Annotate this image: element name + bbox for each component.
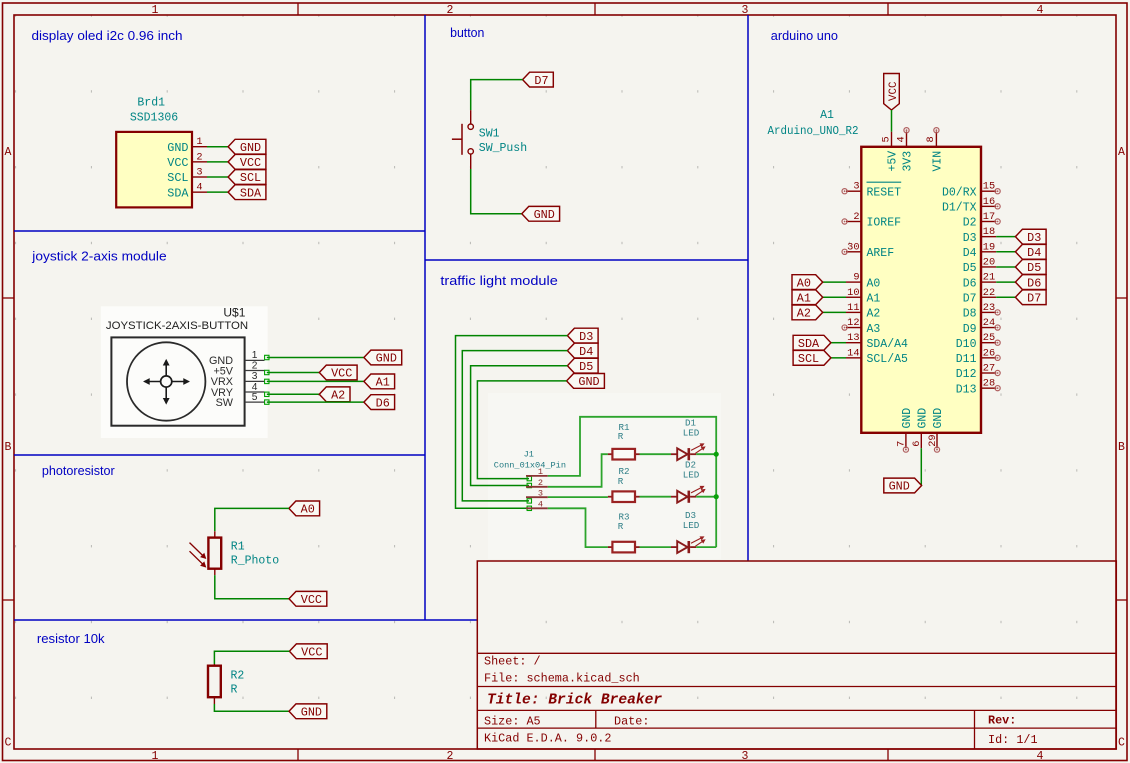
svg-text:25: 25	[983, 332, 995, 344]
svg-text:D3: D3	[579, 330, 593, 344]
resistor R2 top pin	[213, 664, 215, 666]
svg-text:VCC: VCC	[301, 646, 322, 660]
wire A1 to D5 label	[996, 266, 1015, 268]
global label VCC (photoresistor)	[289, 591, 327, 606]
svg-text:R: R	[231, 684, 238, 697]
svg-text:GND: GND	[376, 352, 397, 366]
led D1 (traffic image)	[671, 453, 677, 455]
global label A0 (photoresistor)	[289, 501, 320, 516]
global label SDA (arduino)	[793, 335, 831, 350]
svg-text:B: B	[1118, 441, 1125, 454]
pin 13 of A1 (SDA/A4)	[846, 342, 861, 344]
svg-text:Rev:: Rev:	[988, 714, 1016, 728]
wire D3 cathode	[696, 546, 716, 548]
svg-text:C: C	[1118, 737, 1125, 750]
svg-text:28: 28	[983, 378, 995, 390]
svg-text:D0/RX: D0/RX	[942, 186, 977, 199]
pin 7 of A1 (GND)	[905, 433, 907, 448]
svg-text:4: 4	[196, 182, 202, 194]
pin 14 of A1 (SCL/A5)	[846, 357, 861, 359]
wire A0 to A1	[823, 281, 846, 283]
svg-text:7: 7	[896, 441, 908, 447]
svg-text:IOREF: IOREF	[867, 217, 902, 230]
svg-text:D8: D8	[963, 308, 977, 321]
svg-text:2: 2	[196, 151, 202, 163]
wire traffic pin1 to LED cathodes	[548, 417, 716, 547]
joystick body rectangle	[111, 337, 244, 425]
pin 3 of Brd1 (SCL)	[192, 176, 207, 178]
svg-text:U$1: U$1	[223, 306, 245, 320]
svg-text:20: 20	[983, 256, 995, 268]
pin 1 of Brd1 (GND)	[192, 146, 207, 148]
wire traffic pin3 to R2	[548, 496, 608, 498]
svg-text:1: 1	[152, 4, 159, 17]
joystick section bottom line	[14, 454, 425, 456]
wire A1 GND to label	[920, 448, 922, 485]
svg-text:4: 4	[538, 500, 543, 510]
svg-text:VCC: VCC	[301, 593, 322, 607]
global label SCL (oled)	[228, 170, 266, 185]
photoresistor R1 bottom pin	[214, 569, 216, 575]
svg-text:4: 4	[1037, 750, 1044, 763]
junction dot D2 cathode	[714, 494, 719, 499]
svg-text:GND: GND	[889, 480, 910, 494]
svg-text:D7: D7	[534, 74, 548, 88]
resistor R2 (traffic image)	[608, 496, 613, 498]
svg-text:2: 2	[853, 211, 859, 223]
svg-text:21: 21	[983, 272, 995, 284]
svg-text:6: 6	[911, 441, 923, 447]
svg-text:joystick 2-axis module: joystick 2-axis module	[31, 248, 166, 263]
svg-text:A2: A2	[867, 308, 881, 321]
svg-text:D5: D5	[963, 262, 977, 275]
svg-text:GND: GND	[901, 408, 914, 429]
svg-text:R: R	[618, 521, 624, 532]
wire joystick A2	[267, 393, 320, 395]
wire Brd1 pin 1 to label	[207, 146, 228, 148]
wire GND to J1	[477, 381, 566, 479]
svg-text:A1: A1	[797, 291, 811, 305]
svg-text:D1/TX: D1/TX	[942, 202, 977, 215]
svg-text:A0: A0	[797, 276, 811, 290]
svg-text:D6: D6	[963, 277, 977, 290]
wire R1 to D1	[640, 453, 672, 455]
svg-text:14: 14	[847, 347, 859, 359]
svg-text:LED: LED	[683, 470, 700, 481]
wire D7 to SW1	[471, 80, 523, 111]
svg-text:Size: A5: Size: A5	[484, 715, 541, 729]
svg-text:SCL: SCL	[167, 171, 188, 185]
wire A1 to D3 label	[996, 236, 1015, 238]
svg-text:A2: A2	[797, 307, 811, 321]
svg-text:SDA: SDA	[240, 186, 262, 200]
display section bottom line	[14, 230, 425, 232]
global label GND (button)	[522, 206, 560, 221]
svg-text:12: 12	[847, 317, 859, 329]
svg-text:2: 2	[538, 478, 543, 488]
svg-text:GND: GND	[240, 141, 261, 155]
wire D3 to J1	[456, 336, 568, 509]
pin 5 of A1 (+5V)	[891, 132, 893, 147]
svg-text:D6: D6	[376, 396, 390, 410]
pin 22 of A1 (D7)	[981, 296, 996, 298]
svg-text:SCL: SCL	[240, 171, 261, 185]
resistor R3 (traffic image)	[608, 546, 613, 548]
pin 17 of A1 (D2)	[981, 221, 996, 223]
svg-text:9: 9	[853, 272, 859, 284]
svg-text:VCC: VCC	[167, 156, 188, 170]
svg-text:GND: GND	[301, 706, 322, 720]
switch SW1 bottom pin	[470, 154, 472, 169]
pin 10 of A1 (A1)	[846, 296, 861, 298]
global label GND (joystick)	[364, 350, 402, 365]
junction dot D1 cathode	[714, 452, 719, 457]
pin 11 of A1 (A2)	[846, 311, 861, 313]
power symbol VCC	[884, 74, 900, 111]
svg-text:+5V: +5V	[887, 151, 900, 172]
svg-text:23: 23	[983, 302, 995, 314]
global label VCC (joystick)	[319, 365, 357, 380]
svg-text:1: 1	[152, 750, 159, 763]
svg-text:A1: A1	[376, 376, 390, 390]
svg-text:SW: SW	[216, 397, 234, 409]
svg-text:GND: GND	[578, 375, 599, 389]
svg-text:A0: A0	[301, 503, 315, 517]
wire traffic pin4 to R3	[548, 508, 608, 547]
pin 3 of J1	[526, 496, 548, 498]
svg-text:30: 30	[847, 241, 859, 253]
svg-text:Arduino_UNO_R2: Arduino_UNO_R2	[768, 125, 859, 138]
svg-text:SSD1306: SSD1306	[130, 112, 178, 125]
pin 29 of A1 (GND)	[936, 433, 938, 448]
svg-text:3V3: 3V3	[902, 151, 915, 172]
pin 12 of A1 (A3)	[846, 327, 861, 329]
pin 9 of A1 (A0)	[846, 281, 861, 283]
svg-text:2: 2	[252, 360, 258, 371]
svg-text:VIN: VIN	[931, 151, 944, 172]
svg-text:B: B	[5, 441, 12, 454]
svg-text:3: 3	[742, 750, 749, 763]
wire A1 to D6 label	[996, 281, 1015, 283]
pin 6 of A1 (GND)	[920, 433, 922, 448]
pin 19 of A1 (D4)	[981, 251, 996, 253]
joystick cross arrows	[145, 361, 188, 403]
global label GND (oled)	[228, 139, 266, 154]
svg-text:15: 15	[983, 181, 995, 193]
led D2 (traffic image)	[671, 496, 677, 498]
global label SDA (oled)	[228, 185, 266, 200]
wire A1 to D4 label	[996, 251, 1015, 253]
photoresistor R1 top pin	[214, 531, 216, 537]
wire D4 to J1	[462, 351, 567, 501]
global label A2 (joystick)	[319, 387, 350, 402]
photoresistor section bottom line	[14, 619, 477, 621]
svg-text:D6: D6	[1027, 276, 1041, 290]
pin 27 of A1 (D12)	[981, 372, 996, 374]
wire joystick D6	[267, 401, 364, 403]
global label SCL (arduino)	[793, 350, 831, 365]
svg-text:photoresistor: photoresistor	[42, 463, 115, 478]
svg-text:SDA/A4: SDA/A4	[867, 338, 909, 351]
svg-text:LED: LED	[683, 428, 700, 439]
wire SCL to A1	[831, 357, 846, 359]
svg-text:Brd1: Brd1	[137, 96, 165, 109]
svg-text:D5: D5	[579, 360, 593, 374]
global label D4 (traffic)	[567, 343, 598, 358]
svg-text:SDA: SDA	[798, 337, 820, 351]
traffic module image background	[488, 393, 721, 559]
pin 2 of J1	[526, 486, 548, 488]
svg-text:3: 3	[252, 371, 258, 382]
joystick stick circle	[127, 342, 205, 420]
button section bottom line	[425, 259, 748, 261]
led D3 (traffic image)	[671, 546, 677, 548]
pin 23 of A1 (D8)	[981, 311, 996, 313]
wire D5 to J1	[471, 366, 568, 486]
pin 4 of J1	[526, 507, 548, 509]
svg-text:D3: D3	[963, 232, 977, 245]
svg-text:button: button	[450, 25, 484, 40]
pin 8 of A1 (VIN)	[935, 132, 937, 147]
switch SW1 top pin	[470, 110, 472, 124]
pin 28 of A1 (D13)	[981, 387, 996, 389]
wire Brd1 pin 2 to label	[207, 161, 228, 163]
svg-text:26: 26	[983, 347, 995, 359]
global label D3 (arduino right)	[1015, 229, 1046, 244]
svg-text:J1: J1	[524, 449, 534, 459]
wire SW1 to GND	[471, 169, 522, 214]
svg-text:D3: D3	[1027, 231, 1041, 245]
global label D5 (traffic)	[567, 358, 598, 373]
svg-text:A1: A1	[820, 109, 834, 122]
svg-text:D12: D12	[956, 368, 977, 381]
svg-text:1: 1	[196, 136, 202, 148]
global label D5 (arduino right)	[1015, 260, 1046, 275]
global label GND (traffic)	[567, 374, 605, 389]
title block outline	[477, 561, 1116, 749]
svg-text:17: 17	[983, 211, 995, 223]
photoresistor R1 body	[208, 538, 221, 569]
svg-text:GND: GND	[167, 141, 188, 155]
wire traffic pin2 to R1	[548, 454, 608, 487]
svg-text:1: 1	[538, 467, 543, 477]
pin 4 of A1 (3V3)	[906, 132, 908, 147]
resistor R1 (traffic image)	[608, 453, 613, 455]
wire Brd1 pin 4 to label	[207, 191, 228, 193]
svg-text:Sheet: /: Sheet: /	[484, 655, 541, 669]
svg-text:4: 4	[895, 136, 907, 142]
svg-text:D11: D11	[956, 353, 977, 366]
svg-text:Conn_01x04_Pin: Conn_01x04_Pin	[494, 460, 566, 470]
svg-text:D5: D5	[1027, 261, 1041, 275]
global label VCC (oled)	[228, 154, 266, 169]
global label D6 (arduino right)	[1015, 275, 1046, 290]
svg-text:3: 3	[196, 167, 202, 179]
svg-text:29: 29	[927, 434, 939, 446]
svg-text:C: C	[5, 737, 12, 750]
pin 20 of A1 (D5)	[981, 266, 996, 268]
svg-text:D4: D4	[963, 247, 977, 260]
global label D3 (traffic)	[567, 328, 598, 343]
pin 26 of A1 (D11)	[981, 357, 996, 359]
svg-text:resistor 10k: resistor 10k	[37, 631, 105, 646]
resistor R2 body	[208, 666, 221, 698]
svg-text:SW1: SW1	[479, 128, 500, 141]
svg-text:LED: LED	[683, 520, 700, 531]
switch SW1 symbol	[468, 124, 473, 129]
svg-text:18: 18	[983, 226, 995, 238]
svg-text:4: 4	[1037, 4, 1044, 17]
global label GND (arduino)	[884, 478, 922, 493]
svg-text:SCL: SCL	[798, 352, 819, 366]
svg-text:11: 11	[847, 302, 859, 314]
svg-text:2: 2	[447, 4, 454, 17]
oled module Brd1 body	[116, 132, 192, 208]
wire SDA to A1	[831, 342, 846, 344]
svg-text:16: 16	[983, 196, 995, 208]
svg-text:10: 10	[847, 287, 859, 299]
svg-text:D2: D2	[963, 217, 977, 230]
resistor R2 bottom pin	[213, 697, 215, 704]
svg-text:A1: A1	[867, 292, 881, 305]
svg-text:JOYSTICK-2AXIS-BUTTON: JOYSTICK-2AXIS-BUTTON	[106, 320, 248, 332]
svg-text:R: R	[618, 431, 624, 442]
svg-text:AREF: AREF	[867, 247, 895, 260]
global label GND (resistor)	[289, 704, 327, 719]
svg-text:D7: D7	[963, 292, 977, 305]
svg-text:D7: D7	[1027, 291, 1041, 305]
svg-text:22: 22	[983, 287, 995, 299]
wire Brd1 pin 3 to label	[207, 176, 228, 178]
wire A2 to A1	[823, 311, 846, 313]
wire A1 to D7 label	[996, 296, 1015, 298]
svg-text:D9: D9	[963, 323, 977, 336]
wire joystick A1	[267, 380, 364, 382]
svg-text:D10: D10	[956, 338, 977, 351]
svg-text:D13: D13	[956, 383, 977, 396]
pin 4 of Brd1 (SDA)	[192, 191, 207, 193]
pin 30 of A1 (AREF)	[846, 251, 861, 253]
wire D1 cathode	[696, 453, 716, 455]
svg-text:File: schema.kicad_sch: File: schema.kicad_sch	[484, 672, 640, 686]
svg-text:19: 19	[983, 241, 995, 253]
pin 18 of A1 (D3)	[981, 236, 996, 238]
svg-text:arduino uno: arduino uno	[771, 28, 838, 43]
global label D6 (joystick)	[364, 395, 395, 410]
wire R2 to GND	[214, 704, 289, 711]
wire joystick GND	[267, 357, 364, 359]
pin 2 of Brd1 (VCC)	[192, 161, 207, 163]
wire R2 to D2	[640, 496, 672, 498]
svg-text:24: 24	[983, 317, 995, 329]
wire D2 cathode	[696, 496, 716, 498]
svg-text:27: 27	[983, 363, 995, 375]
svg-text:Id: 1/1: Id: 1/1	[988, 733, 1038, 747]
svg-text:3: 3	[853, 181, 859, 193]
section divider vertical x=425	[424, 15, 426, 620]
joystick image background	[101, 306, 268, 438]
svg-text:D4: D4	[579, 345, 593, 359]
pin 16 of A1 (D1/TX)	[981, 205, 996, 207]
svg-text:5: 5	[880, 136, 892, 142]
svg-text:A: A	[1118, 146, 1125, 159]
svg-text:SCL/A5: SCL/A5	[867, 353, 909, 366]
svg-text:8: 8	[925, 136, 937, 142]
pin 25 of A1 (D10)	[981, 342, 996, 344]
global label A2 (arduino)	[792, 305, 823, 320]
svg-text:5: 5	[252, 392, 258, 403]
svg-text:A: A	[5, 146, 12, 159]
global label VCC (resistor)	[289, 644, 327, 659]
svg-text:R_Photo: R_Photo	[231, 554, 279, 567]
arduino A1 body	[861, 147, 981, 433]
svg-text:VCC: VCC	[240, 156, 261, 170]
pin 15 of A1 (D0/RX)	[981, 190, 996, 192]
svg-text:KiCad E.D.A. 9.0.2: KiCad E.D.A. 9.0.2	[484, 732, 611, 746]
svg-text:A2: A2	[331, 389, 345, 403]
svg-text:D4: D4	[1027, 246, 1041, 260]
svg-text:R: R	[618, 476, 624, 487]
photoresistor light arrows	[190, 543, 206, 567]
svg-text:traffic light module: traffic light module	[440, 273, 557, 288]
pin 3 of A1 (RESET)	[846, 190, 861, 192]
svg-text:Title: Brick Breaker: Title: Brick Breaker	[487, 693, 662, 709]
global label A0 (arduino)	[792, 275, 823, 290]
svg-text:VCC: VCC	[331, 367, 352, 381]
pin 1 of J1	[526, 475, 548, 477]
svg-text:A3: A3	[867, 323, 881, 336]
pin 24 of A1 (D9)	[981, 327, 996, 329]
global label A1 (joystick)	[364, 374, 395, 389]
wire R3 to D3	[640, 546, 672, 548]
global label D4 (arduino right)	[1015, 244, 1046, 259]
svg-text:GND: GND	[932, 408, 945, 429]
svg-text:13: 13	[847, 332, 859, 344]
svg-text:R1: R1	[231, 540, 245, 553]
svg-text:RESET: RESET	[867, 186, 902, 199]
wire VCC to arduino +5V	[891, 110, 893, 132]
wire A0 to R1	[215, 508, 289, 531]
svg-text:R2: R2	[231, 669, 245, 682]
wire joystick VCC	[267, 372, 320, 374]
wire VCC to R2	[214, 651, 289, 664]
svg-text:SW_Push: SW_Push	[479, 142, 527, 155]
svg-text:Date:: Date:	[614, 715, 649, 729]
svg-text:3: 3	[538, 488, 543, 498]
global label A1 (arduino)	[792, 290, 823, 305]
wire A1 to A1	[823, 296, 846, 298]
wire R1 to VCC	[215, 575, 289, 599]
svg-text:2: 2	[447, 750, 454, 763]
global label D7 (button)	[523, 72, 554, 87]
global label D7 (arduino right)	[1015, 290, 1046, 305]
svg-text:A0: A0	[867, 277, 881, 290]
svg-text:VCC: VCC	[888, 81, 900, 101]
svg-text:display oled i2c 0.96 inch: display oled i2c 0.96 inch	[32, 28, 183, 43]
svg-text:SDA: SDA	[167, 186, 189, 200]
svg-text:GND: GND	[534, 208, 555, 222]
pin 21 of A1 (D6)	[981, 281, 996, 283]
section divider vertical x=748	[747, 15, 749, 561]
pin 2 of A1 (IOREF)	[846, 221, 861, 223]
svg-text:GND: GND	[916, 408, 929, 429]
